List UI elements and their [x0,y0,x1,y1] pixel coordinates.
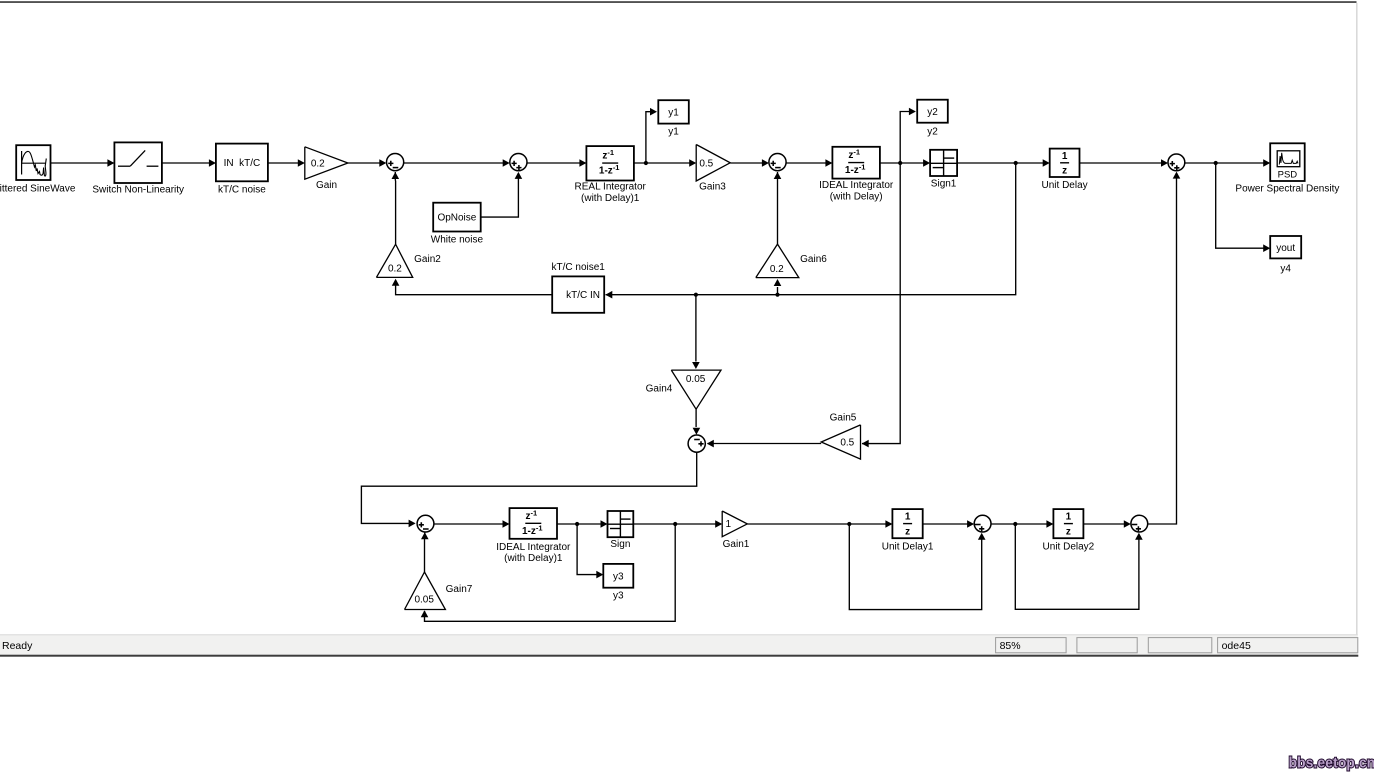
wire Unit Delay1 to Sum7 [923,520,974,528]
block IDEAL Integrator (with Delay) [832,147,880,179]
wire Sum5 to Sum6 [361,452,696,527]
wire Sum1 to Sum2 [404,159,510,167]
wire IDEAL Integrator1 to Sign [557,520,608,528]
block Unit Delay2 [1053,509,1083,538]
label Sign [610,539,630,550]
wire junction to Sum8 bottom [1015,524,1142,609]
label Gain [316,180,337,191]
wire REAL Integrator to Gain3 [634,159,696,167]
canvas right edge line [1356,3,1357,635]
status cell empty2 [1148,638,1212,653]
label y2 [927,126,938,137]
wire OpNoise to Sum2 [481,172,523,217]
label y1 [668,126,679,137]
wire junction to y3 [577,524,603,578]
svg-text:Power Spectral Density: Power Spectral Density [1235,184,1339,195]
svg-text:Gain: Gain [316,180,337,191]
wire kT/C noise to Gain [268,159,305,167]
label Gain2 [414,254,441,265]
label Gain3 [699,181,726,192]
svg-text:1: 1 [1066,511,1072,522]
status bar bottom edge [0,655,1358,657]
svg-text:Unit Delay: Unit Delay [1042,180,1088,191]
svg-text:bbs.eetop.cn: bbs.eetop.cn [1289,754,1374,770]
svg-text:z: z [1062,165,1067,176]
sum block Sum1 [387,154,404,171]
status cell empty1 [1077,638,1137,653]
outport block y3 [603,564,633,588]
status bar background [0,634,1358,654]
svg-text:Gain7: Gain7 [446,584,473,595]
svg-text:kT/C noise: kT/C noise [218,184,266,195]
watermark bbs.eetop.cn [1289,754,1374,770]
svg-text:z: z [905,527,910,538]
label Unit Delay2 [1043,542,1095,553]
label y4 [1280,263,1291,274]
wire junction to Gain4 [692,295,700,369]
wire Unit Delay to Sum4 [1080,159,1169,167]
wire Sum4 to PSD [1185,159,1270,167]
sum block Sum2 [510,154,527,171]
outport block y2 [917,100,948,123]
junction node y3 tap [575,522,579,526]
wire kT/C noise1 to Gain2 [392,279,552,295]
block Unit Delay1 [892,509,922,538]
label y3 [613,591,624,602]
wire Sum2 to REAL Integrator [527,159,586,167]
block REAL Integrator (with Delay)1 [586,146,634,180]
svg-text:REAL Integrator: REAL Integrator [575,182,647,193]
label Power Spectral Density [1235,184,1339,195]
label Gain4 [646,383,673,394]
svg-text:y4: y4 [1280,263,1291,274]
svg-text:1: 1 [1062,151,1068,162]
block kT/C noise [216,144,268,182]
junction node Gain7 tap [673,522,677,526]
gain block Gain5 0.5 [821,425,860,459]
svg-text:Sign: Sign [610,539,630,550]
svg-text:Gain3: Gain3 [699,181,726,192]
svg-text:y3: y3 [613,572,624,583]
source block Jittered SineWave [16,145,50,180]
wire Gain6 to Sum3 [774,172,782,244]
junction node Sum7 tap [847,522,851,526]
svg-text:PSD: PSD [1278,169,1298,180]
wire junction to Gain7 [421,524,676,621]
svg-text:y3: y3 [613,591,624,602]
svg-text:kT/C IN: kT/C IN [566,290,600,301]
junction node Gain6 tap [775,293,779,297]
junction node y2 tap [898,161,902,165]
junction node yout tap [1214,161,1218,165]
sum block Sum4 [1168,154,1185,171]
wire Sum7 to Unit Delay2 [991,520,1053,528]
svg-text:0.5: 0.5 [699,158,713,169]
svg-text:Ready: Ready [2,640,33,652]
svg-text:Jittered SineWave: Jittered SineWave [0,184,76,195]
svg-text:Gain2: Gain2 [414,254,441,265]
wire SineWave to Switch [51,159,115,167]
wire junction to yout [1216,163,1271,252]
junction node Sum8 tap [1013,522,1017,526]
label IDEAL Integrator (with Delay)1b [496,542,571,564]
svg-text:y2: y2 [927,126,938,137]
svg-text:y1: y1 [668,108,679,119]
svg-text:Gain1: Gain1 [723,539,750,550]
label Jittered SineWave [0,184,76,195]
label Switch Non-Linearity [92,184,184,195]
wire Gain1 to Unit Delay1 [747,520,892,528]
junction node feedback tap [1014,161,1018,165]
svg-text:IDEAL Integrator: IDEAL Integrator [496,542,571,553]
wire Sum6 to IDEAL Integrator1 [434,520,510,528]
svg-text:0.2: 0.2 [311,158,325,169]
wire junction to y2 [900,108,916,163]
block kT/C noise1 [552,276,604,312]
svg-text:Gain6: Gain6 [800,254,827,265]
status cell 85% [996,638,1067,653]
label Unit Delay1 [882,542,934,553]
svg-text:Sign1: Sign1 [931,179,957,190]
label Sign1 [931,179,957,190]
gain block Gain4 0.05 [671,370,721,409]
wire Gain5 to Sum5 [707,440,821,448]
junction node Gain4 tap [694,293,698,297]
svg-text:yout: yout [1276,243,1295,254]
label IDEAL Integrator (with Delay) [819,180,894,202]
wire Gain3 to Sum3 [730,159,769,167]
wire Gain2 to Sum1 [392,172,400,244]
wire junction to Gain6 [774,279,782,295]
svg-text:Gain4: Gain4 [646,383,673,394]
wire Sum8 to Sum4 [1148,172,1181,524]
svg-text:y1: y1 [668,126,679,137]
wire Gain4 to Sum5 [693,409,701,435]
block IDEAL Integrator (with Delay)1 [510,508,558,539]
sum block Sum8 [1131,515,1148,532]
status text Ready [2,640,33,652]
block Sign1 [930,150,957,176]
wire feedback to kT/C noise1 [605,163,1015,299]
label REAL Integrator (with Delay)1 [575,182,647,204]
wire junction to y1 [646,108,657,163]
label Unit Delay [1042,180,1088,191]
label kT/C noise [218,184,266,195]
svg-text:0.05: 0.05 [686,374,706,385]
sink block PSD [1270,143,1305,181]
label Gain5 [830,412,857,423]
sum block Sum5 [688,435,705,452]
block Unit Delay [1050,149,1080,177]
outport block yout [1270,236,1301,258]
window top border [0,1,1357,3]
wire Gain to Sum1 [348,159,386,167]
junction node y1 tap [644,161,648,165]
wire IDEAL Integrator to Sign1 [880,159,930,167]
svg-text:Unit Delay1: Unit Delay1 [882,542,934,553]
svg-text:Gain5: Gain5 [830,412,857,423]
label kT/C noise1 [552,262,606,273]
svg-text:(with Delay)1: (with Delay)1 [581,193,640,204]
svg-text:Switch Non-Linearity: Switch Non-Linearity [92,184,184,195]
svg-text:0.2: 0.2 [770,264,784,275]
gain block Gain 0.2 [305,147,348,179]
svg-text:0.05: 0.05 [414,594,434,605]
block Switch Non-Linearity [114,142,161,183]
svg-text:ode45: ode45 [1222,640,1251,652]
wire junction down to Gain5 [862,163,901,447]
wire Sign to Gain1 [633,520,722,528]
gain block Gain7 0.05 [405,572,446,610]
wire Switch to kT/C noise [162,159,216,167]
svg-text:0.5: 0.5 [840,437,854,448]
svg-text:IN kT/C: IN kT/C [224,158,261,169]
svg-text:kT/C noise1: kT/C noise1 [552,262,606,273]
sum block Sum3 [769,154,786,171]
wire Unit Delay2 to Sum8 [1083,520,1130,528]
gain block Gain6 0.2 [756,244,799,278]
gain block Gain2 0.2 [376,244,412,277]
status cell ode45 [1218,638,1358,653]
label White noise [431,235,484,246]
svg-text:(with Delay)1: (with Delay)1 [504,553,563,564]
label Gain7 [446,584,473,595]
svg-text:1: 1 [905,511,911,522]
svg-text:OpNoise: OpNoise [437,213,476,224]
wire junction to Sum7 bottom [849,524,985,610]
svg-text:Unit Delay2: Unit Delay2 [1043,542,1095,553]
svg-text:0.2: 0.2 [388,264,402,275]
label Gain1 [723,539,750,550]
wire Sum3 to IDEAL Integrator [786,159,832,167]
svg-text:y2: y2 [927,107,938,118]
block OpNoise White noise [433,203,481,232]
svg-text:85%: 85% [1000,640,1021,652]
label Gain6 [800,254,827,265]
outport block y1 [658,100,689,123]
svg-text:(with Delay): (with Delay) [830,191,883,202]
svg-text:1: 1 [726,519,732,530]
gain block Gain1 1 [722,511,747,537]
sum block Sum6 [417,515,434,532]
svg-text:IDEAL Integrator: IDEAL Integrator [819,180,894,191]
wire Sign1 to Unit Delay [957,159,1050,167]
sum block Sum7 [974,515,991,532]
svg-text:White noise: White noise [431,235,484,246]
wire Gain7 to Sum6 [421,532,429,572]
block Sign [608,511,634,537]
gain block Gain3 0.5 [696,145,730,182]
svg-text:z: z [1066,527,1071,538]
